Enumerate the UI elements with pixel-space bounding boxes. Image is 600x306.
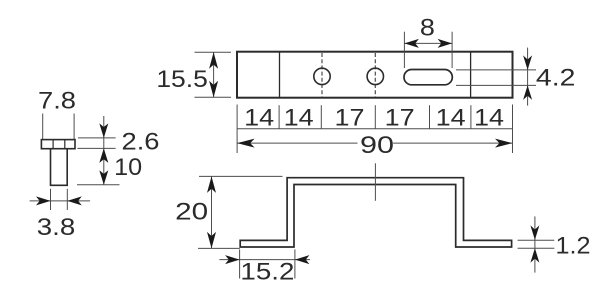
svg-text:7.8: 7.8 <box>38 88 76 115</box>
dimension line 15.5 <box>213 52 215 97</box>
extension line 1.2 bottom <box>518 247 555 249</box>
dimension line 90 right segment <box>393 142 512 144</box>
dimension line 8 <box>404 42 452 44</box>
svg-text:14: 14 <box>474 105 504 132</box>
dimension line 3.8 <box>30 200 91 202</box>
extension line 4.2 top <box>456 69 536 71</box>
svg-text:8: 8 <box>420 15 435 42</box>
dimension line 2.6 and 10 vertical <box>103 116 105 185</box>
dimension line 1.2 <box>534 216 536 272</box>
svg-text:14: 14 <box>244 105 274 132</box>
svg-text:4.2: 4.2 <box>536 65 576 92</box>
screw head facet line right <box>64 140 66 149</box>
screw head outline <box>41 140 75 149</box>
extension line row left <box>236 105 238 154</box>
arrowhead left 90 <box>237 139 255 148</box>
extension line head top right <box>78 137 116 139</box>
extension line 4.2 bottom <box>456 84 536 86</box>
plate divider line left <box>279 52 281 98</box>
screw head facet line left <box>52 140 54 149</box>
extension line 3.8 left <box>50 189 52 210</box>
plate divider line right <box>470 52 472 98</box>
row tick 4 <box>429 105 431 129</box>
arrowhead down 15.5 <box>209 81 218 98</box>
arrowhead left 15.2 right <box>295 255 310 264</box>
extension line head bottom right <box>77 147 115 149</box>
arrowhead left 8 <box>404 39 419 48</box>
extension line 15.2 left <box>239 249 241 278</box>
extension line row right <box>512 105 514 154</box>
arrowhead down 1.2 top <box>530 225 539 240</box>
row tick 3 <box>374 105 376 129</box>
dimension line 20 <box>211 176 213 248</box>
svg-text:17: 17 <box>385 105 415 132</box>
slot <box>404 70 452 85</box>
extension line 3.8 right <box>66 189 68 210</box>
arrowhead up 15.5 <box>209 52 218 69</box>
row tick 1 <box>278 105 280 129</box>
arrowhead down 20 <box>207 232 216 249</box>
dimension line 4.2 <box>527 48 529 106</box>
arrowhead down 4.2 top <box>523 55 532 70</box>
extension line 8 left <box>403 32 405 68</box>
svg-text:90: 90 <box>360 132 394 159</box>
extension line 15.2 right <box>294 249 296 278</box>
plate outline <box>237 52 513 98</box>
dimension line 90 left segment <box>237 142 357 144</box>
arrowhead up at head bottom <box>99 148 108 163</box>
arrowhead right 15.2 left <box>225 255 240 264</box>
hole centerline right <box>374 53 376 97</box>
row tick 5 <box>470 105 472 129</box>
arrowhead right at shank left edge <box>36 196 51 205</box>
arrowhead down at shank bottom <box>99 170 108 185</box>
svg-text:17: 17 <box>335 105 365 132</box>
arrowhead left at shank right edge <box>67 196 82 205</box>
row tick 2 <box>320 105 322 129</box>
extension line 8 right <box>451 32 453 68</box>
bracket centerline <box>374 163 376 201</box>
row underline <box>237 128 512 130</box>
svg-text:14: 14 <box>436 105 466 132</box>
extension line 1.2 top <box>518 239 555 241</box>
extension line 7.8 right <box>73 114 75 140</box>
hole left <box>314 68 330 84</box>
svg-text:1.2: 1.2 <box>556 232 591 259</box>
dimension line 15.2 <box>219 259 310 261</box>
svg-text:20: 20 <box>175 198 208 225</box>
hole right <box>367 68 383 84</box>
svg-text:3.8: 3.8 <box>37 214 76 241</box>
svg-text:15.2: 15.2 <box>240 258 294 285</box>
arrowhead right 90 <box>495 139 513 148</box>
svg-text:14: 14 <box>284 105 314 132</box>
extension line 20 top <box>199 175 283 177</box>
extension line 15.5 top <box>195 51 232 53</box>
extension line 7.8 left <box>42 114 44 140</box>
arrowhead right 8 <box>438 39 453 48</box>
hole centerline left <box>321 53 323 97</box>
extension line shank bottom right <box>77 184 120 186</box>
extension line 15.5 bottom <box>195 96 232 98</box>
extension line 20 bottom <box>198 247 240 249</box>
arrowhead down at head top <box>99 123 108 137</box>
svg-text:10: 10 <box>114 154 142 181</box>
arrowhead up 1.2 bottom <box>530 248 539 263</box>
svg-text:2.6: 2.6 <box>122 128 160 155</box>
svg-text:15.5: 15.5 <box>156 66 208 93</box>
arrowhead up 4.2 bottom <box>523 85 532 100</box>
arrowhead up 20 <box>207 176 216 193</box>
screw shank outline <box>51 149 68 186</box>
bracket outline <box>240 178 511 247</box>
